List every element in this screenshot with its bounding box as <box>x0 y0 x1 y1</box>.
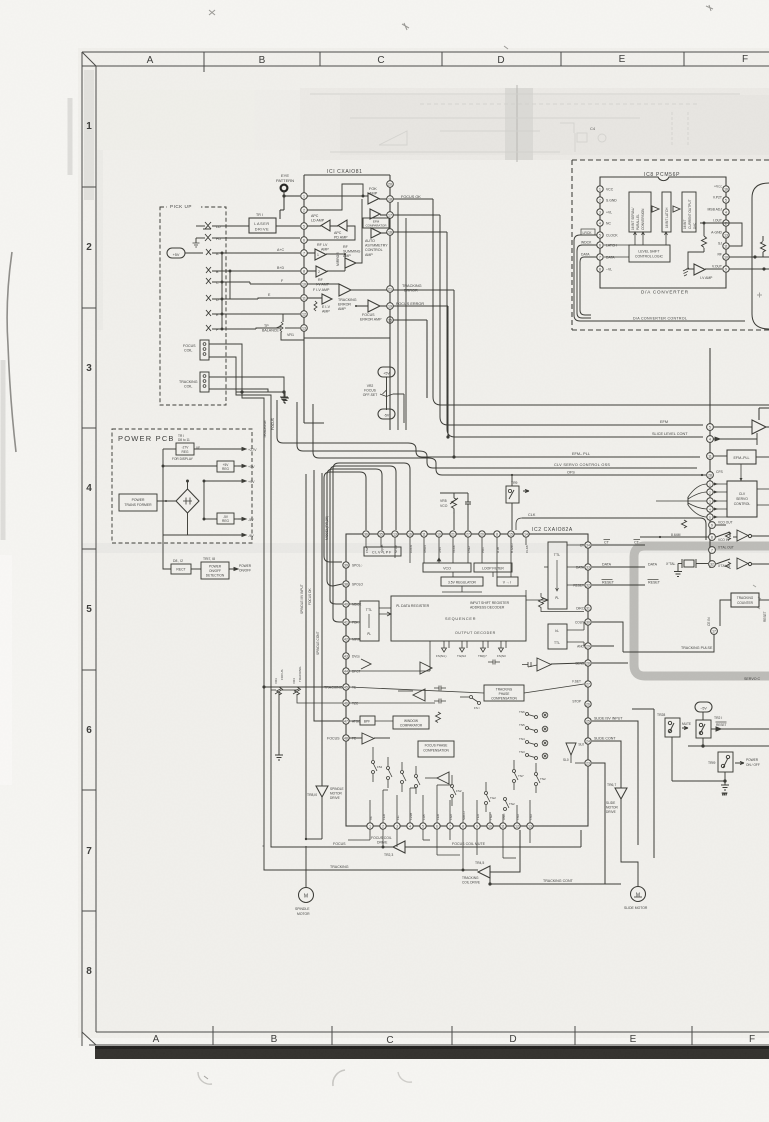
wire I.OUT loop <box>700 223 742 246</box>
IC1 right pins <box>387 181 394 324</box>
servo cont label <box>744 677 761 681</box>
focus phase compensation box <box>418 741 454 757</box>
photodiode F <box>206 325 281 332</box>
IC2 bottom pins <box>367 823 533 829</box>
IC2 internal wiring <box>349 288 584 703</box>
op-amp sens <box>522 658 584 671</box>
CLV servo input curves <box>656 484 707 517</box>
IC2 right external labels <box>594 540 661 741</box>
wire TE row <box>263 686 342 755</box>
bottom black bar <box>95 1046 769 1059</box>
photodiode LD <box>196 222 249 229</box>
node WDCK <box>577 241 597 318</box>
node EFM pin 5 <box>707 424 714 431</box>
IC2 box TTL/IIL left <box>360 601 379 641</box>
resistor feedback IC8 <box>702 222 707 252</box>
photodiode C <box>206 278 300 285</box>
IC2 top pins <box>363 531 529 537</box>
IC8 level shift control logic <box>604 232 670 262</box>
potentiometer VR2 focus offset <box>363 367 404 423</box>
window comparator box <box>349 716 429 729</box>
photodiode A <box>206 248 300 256</box>
IC2 box loop filter <box>474 563 512 572</box>
scan artifacts <box>82 85 769 553</box>
IC2 box 3.5V regulator <box>441 577 483 586</box>
grid letters top <box>147 54 748 66</box>
transistor TR6,7 slide drive <box>606 783 638 887</box>
IC2 box CLV LPF <box>364 547 401 556</box>
ground VR3 <box>275 755 283 760</box>
wire tracking pulse <box>592 622 714 652</box>
IC8 PCM56P body <box>600 172 726 288</box>
CLV SERVO CONTROL box <box>713 481 769 519</box>
label riser bus <box>325 516 329 540</box>
op-amp TR4,5 tracking coil drive <box>462 861 490 885</box>
IC8 dashed enclosure <box>572 160 769 330</box>
node X'TAL IN pin 32 <box>709 561 731 568</box>
motor slide <box>624 887 648 911</box>
frame ticks bottom <box>213 1026 692 1045</box>
op-amp slide SL0 <box>563 743 584 763</box>
wire FOCUS row <box>263 830 581 847</box>
IC2 top pin labels rotated <box>365 543 529 553</box>
power output arrows <box>238 448 257 539</box>
wire spindle 9v riser <box>300 474 306 839</box>
servo block (cut off at right) <box>752 183 769 329</box>
wire sens row <box>592 646 628 663</box>
op-amp focus mid <box>361 659 371 669</box>
wire RF <box>729 256 769 258</box>
ground coil common <box>280 392 288 402</box>
node X'TAL OUT <box>709 546 734 554</box>
switch FS4 <box>372 747 383 782</box>
IC1 left pins 1-13 <box>301 193 308 332</box>
wire FOCUS OK <box>393 195 433 199</box>
decoder output arrows <box>436 641 506 658</box>
switch group left of focus comp <box>387 757 421 794</box>
IC2 bottom pin stubs <box>348 829 530 871</box>
IC8 serial/parallel converter <box>629 192 651 232</box>
tracking counter box <box>707 593 769 626</box>
op-amp focus out <box>425 772 449 784</box>
op-amp VCO buffer <box>716 530 769 541</box>
transformer box <box>119 494 176 511</box>
IC2 box VCO <box>423 563 471 572</box>
IC2 box V-I <box>497 577 518 586</box>
photodiode E <box>206 310 300 317</box>
IC2 bottom pin labels rotated <box>369 811 533 820</box>
op-amp focus error amp <box>355 300 387 322</box>
op-amp auto asymmetry <box>365 228 447 257</box>
right bus vertical <box>709 348 711 568</box>
pickup common bus <box>221 253 230 330</box>
switch TN6 <box>519 710 548 719</box>
IC2 left pins <box>343 562 364 741</box>
coil wiring <box>209 344 285 393</box>
IC8 DAC box <box>682 192 697 232</box>
transistor TR8,10 spindle drive <box>305 786 344 840</box>
+5V supply node <box>167 248 203 258</box>
capacitor marks IC2 <box>434 660 500 723</box>
wire IC1 focus ok drop <box>433 199 769 405</box>
regulator -5V REG <box>217 513 234 524</box>
CLV servo control input pins <box>707 481 713 520</box>
node slice level pin 4 <box>707 433 757 445</box>
left page curl shadow <box>7 252 16 452</box>
motor spindle <box>295 846 314 916</box>
transistor TG2b <box>504 798 515 811</box>
IC2 left external labels <box>324 686 343 741</box>
text EFM-PLL row <box>554 452 610 475</box>
frame ticks left <box>82 187 96 911</box>
bus arrows between IC8 blocks <box>652 206 680 212</box>
IC2 box IIL/TTL right lower <box>548 624 567 649</box>
wire TRACKING ERROR <box>393 284 454 293</box>
IC2 CXA1082A body <box>346 527 588 826</box>
transistor TR9 <box>506 474 529 530</box>
frame ticks top <box>204 52 684 72</box>
focus coil connector <box>183 340 209 360</box>
POWER PCB dashed box <box>112 429 252 543</box>
wire CT/DATA/RESET rows <box>592 545 645 585</box>
potentiometer VR3 <box>271 670 297 696</box>
tracking phase compensation box <box>484 685 524 701</box>
node VCO OUT pin 9 <box>682 520 733 528</box>
transistor TR28 <box>657 713 691 737</box>
node VCO IN pin 8 <box>640 533 730 542</box>
op-amp EFM comparator <box>363 209 440 228</box>
op-amp EFM buffer <box>714 408 769 434</box>
wire slide риsers <box>592 709 654 884</box>
op-amp XTAL buffer <box>716 558 769 569</box>
IC2 box TTL/IIL right top <box>548 542 567 609</box>
switch TG2 <box>485 782 497 812</box>
wire CLK <box>516 513 706 540</box>
grid numbers left <box>86 121 92 977</box>
EFM-PLL box <box>714 450 769 481</box>
switch TN7 <box>513 760 524 790</box>
op-amp RF summing amp <box>343 199 362 268</box>
regulator -27V REG TR1 <box>172 434 200 461</box>
switch TN4 <box>519 737 548 747</box>
op-amp tracking mid2 <box>420 662 432 674</box>
highlighted gray trace <box>634 546 769 676</box>
wire IC1 asym drop / slice level <box>447 232 703 437</box>
wire bundle W1-W4 into IC2 top pins <box>324 463 410 622</box>
ground pickup PD <box>193 243 200 247</box>
power on/off detection TR17,18 <box>201 557 252 579</box>
wire signal S2 to CLV row <box>297 402 697 468</box>
IC8 right pins <box>707 185 729 273</box>
IC2 data register box <box>391 596 526 641</box>
left band smudge <box>84 70 103 330</box>
wire FOCUS ERROR <box>393 302 448 398</box>
grid letters bottom <box>153 1034 755 1046</box>
op-amp RF I-V amp 1 <box>307 243 346 260</box>
wire signal S3 to OFS row <box>313 404 706 475</box>
rectifier bridge <box>176 489 199 513</box>
op-amp tracking error amp <box>307 284 387 311</box>
wire IC1 tracking error drop <box>453 290 455 458</box>
IC1 outline <box>304 175 390 430</box>
IC8 16 bit latch <box>662 192 671 232</box>
pickup dashed box <box>160 201 226 405</box>
regulator +5V REG <box>217 461 234 472</box>
wire eye pattern to pin 1 <box>280 191 300 219</box>
photodiode PD <box>196 234 300 243</box>
switch TN3 <box>519 750 548 760</box>
power wiring <box>162 449 238 535</box>
op-amp RF I-V amp 2 <box>307 252 345 287</box>
wire IC1 column down <box>304 202 406 430</box>
IC1 CXA1081 label <box>327 169 363 175</box>
op-amp I-V AMP (IC8) <box>688 252 722 280</box>
ground near pickup risers <box>281 393 289 403</box>
transistor TR19 <box>708 752 760 772</box>
ghost marks top margin <box>209 5 713 49</box>
resistor VR5 VCO <box>440 493 471 530</box>
transistor TR21 <box>696 716 769 738</box>
wire pin2 internal loop <box>307 184 368 210</box>
ground I-V amp <box>683 268 689 276</box>
tracking coil connector <box>179 372 209 392</box>
text D/A converter <box>641 290 689 295</box>
eye pattern node <box>276 173 294 191</box>
node pin 17 tracking pulse <box>711 628 718 635</box>
op-amp FE input <box>349 733 390 744</box>
node pin 28 OFS <box>701 470 724 478</box>
left margin light strip <box>0 555 12 785</box>
wire TRACKING row <box>264 830 520 872</box>
op-amp APC LD AMP <box>307 214 330 231</box>
potentiometer VR4 <box>264 666 342 703</box>
rectifier D8,12 RECT <box>163 535 201 574</box>
wire TR28/TR21/TR19 net <box>672 737 769 785</box>
bottom margin specks <box>198 293 762 1087</box>
ghost bleed-through lines <box>310 94 740 152</box>
wire signal S1 to EFM-PLL row <box>277 400 700 457</box>
photodiode D <box>206 293 300 302</box>
wire tracking cont row <box>489 878 621 885</box>
IC8 left pins <box>597 186 619 272</box>
photodiode B <box>206 266 300 274</box>
op-amp FOK AMP <box>345 187 387 204</box>
node pin 11 EFM-PLL <box>707 453 714 460</box>
wire IC1 focus error drop <box>447 306 449 438</box>
switch FS2 <box>451 775 462 806</box>
wire focus ok riser <box>308 470 342 721</box>
wire IC1 efm comparator drop <box>440 215 703 425</box>
wire focus/tracking risers <box>236 392 275 869</box>
ground TR19 <box>721 785 729 796</box>
op-amp TR2,3 focus coil drive <box>371 836 405 857</box>
switch TN5 <box>519 723 548 733</box>
potentiometer VR1 TP balance <box>262 314 304 340</box>
op-amp E I-V amp <box>307 294 332 314</box>
op-amp APC PD AMP <box>307 220 355 240</box>
IC2 bottom internal stubs <box>370 785 530 823</box>
op-amp tracking amp mid <box>398 689 425 701</box>
wire V.OUT <box>729 268 769 270</box>
+5V node TR21 <box>695 702 712 720</box>
IC2 right pins <box>572 542 591 766</box>
switch TN2 <box>535 763 546 793</box>
wire D/A converter control bus <box>580 317 745 322</box>
switch FS1 <box>460 696 481 711</box>
node DATA <box>580 253 597 315</box>
TR1 laser drive <box>249 213 300 233</box>
wire spindle cont riser <box>316 473 322 786</box>
node LRCK <box>574 229 597 321</box>
crystal X'TAL <box>666 559 708 577</box>
